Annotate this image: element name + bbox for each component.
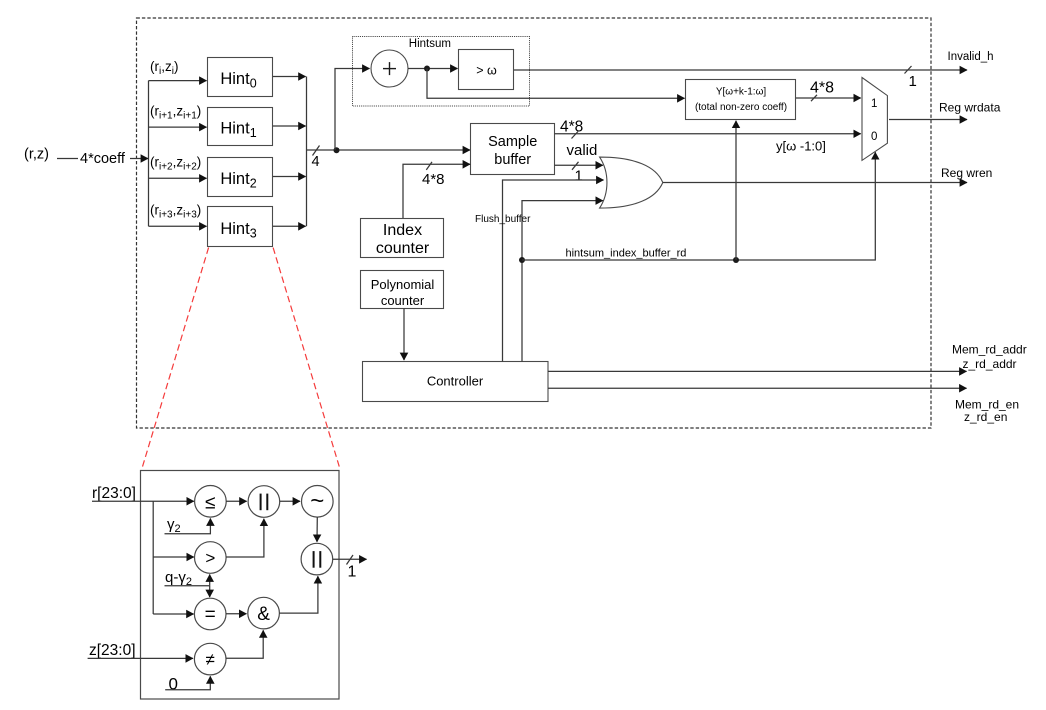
svg-text:Hintsum: Hintsum bbox=[409, 38, 451, 50]
wire branch to Hint3 bbox=[149, 225, 207, 227]
svg-text:(ri+1,zi+1): (ri+1,zi+1) bbox=[150, 104, 201, 122]
node width slash 4*8 index path bbox=[426, 162, 432, 170]
svg-text:Index: Index bbox=[383, 222, 422, 239]
wire NOT down to OR2 bbox=[316, 517, 318, 542]
wire branch to Hint1 bbox=[149, 126, 207, 128]
svg-text:≠: ≠ bbox=[206, 650, 215, 669]
block Hint2 bbox=[208, 158, 273, 197]
wire q-gamma2 horizontal bbox=[165, 585, 210, 587]
svg-text:buffer: buffer bbox=[494, 152, 531, 168]
block Polynomial counter bbox=[361, 271, 444, 309]
wire gamma2 into LE bottom bbox=[165, 519, 211, 534]
svg-text:y[ω -1:0]: y[ω -1:0] bbox=[776, 138, 826, 153]
gate GT circle bbox=[195, 542, 227, 574]
wire zero into NE bottom bbox=[165, 676, 210, 689]
svg-text:>: > bbox=[205, 549, 215, 568]
gate LE circle bbox=[195, 486, 227, 518]
wire q-gamma2 down into EQ bbox=[209, 586, 211, 597]
block Controller bbox=[363, 362, 549, 402]
node junction dot after adder bbox=[424, 66, 430, 72]
wire EQ to AND bbox=[226, 613, 246, 615]
svg-text:Y[ω+k-1:ω]: Y[ω+k-1:ω] bbox=[716, 87, 767, 98]
wire up into Y block bottom bbox=[735, 121, 737, 260]
wire hintsum_index_buffer_rd to mux select bbox=[522, 152, 875, 260]
block Hint3 bbox=[208, 207, 273, 247]
wire Hint2 output bbox=[273, 176, 306, 178]
svg-text:&: & bbox=[257, 604, 270, 625]
svg-text:(ri+2,zi+2): (ri+2,zi+2) bbox=[150, 155, 201, 173]
svg-text:r[23:0]: r[23:0] bbox=[92, 485, 136, 502]
svg-text:=: = bbox=[205, 604, 216, 625]
wire adder to comparator bbox=[408, 68, 458, 70]
node width slash 4*8 sample output bbox=[572, 132, 579, 139]
svg-text:1: 1 bbox=[909, 73, 917, 90]
wire r input to LE bbox=[92, 500, 194, 502]
svg-text:z_rd_en: z_rd_en bbox=[964, 410, 1007, 424]
wire right output bus vertical bbox=[306, 77, 308, 227]
wire polynomial counter to controller bbox=[403, 309, 405, 361]
wire OR2 output bbox=[333, 558, 367, 560]
node junction dot on bus bbox=[334, 147, 340, 153]
wire branch to Hint2 bbox=[149, 177, 207, 179]
svg-text:4*coeff: 4*coeff bbox=[80, 151, 126, 167]
wire AND to OR2 bottom bbox=[279, 576, 318, 613]
wire LE to OR1 bbox=[226, 500, 246, 502]
wire junction up to adder bbox=[335, 69, 370, 151]
svg-text:Controller: Controller bbox=[427, 374, 484, 389]
svg-text:(total non-zero coeff): (total non-zero coeff) bbox=[695, 102, 787, 113]
block Hint0 bbox=[208, 58, 273, 97]
mux 2to1 bbox=[862, 78, 887, 161]
wire input arrow into bus bbox=[130, 158, 148, 160]
wire z input to NE bbox=[88, 657, 193, 659]
node junction dot hintsum branch bbox=[519, 257, 525, 263]
svg-text:(r,z): (r,z) bbox=[24, 147, 49, 163]
wire sample buffer to mux input 0 bbox=[555, 133, 861, 135]
wire NE to AND bottom bbox=[226, 630, 263, 658]
wire branch to Hint0 bbox=[149, 80, 207, 82]
wire input segment bbox=[57, 158, 78, 160]
block Hint1 bbox=[208, 108, 273, 146]
wire controller up to OR gate input 3 bbox=[522, 201, 603, 362]
svg-text:counter: counter bbox=[381, 293, 425, 308]
wire q-gamma2 up into GT bbox=[209, 575, 211, 586]
svg-text:z[23:0]: z[23:0] bbox=[89, 642, 136, 659]
wire comparator to Invalid_h output bbox=[514, 69, 967, 71]
gate OR2 circle bbox=[301, 543, 333, 575]
wire controller output Mem_rd_addr bbox=[548, 370, 967, 372]
wire left input bus vertical bbox=[148, 81, 150, 227]
node width slash 1 valid bbox=[572, 162, 579, 170]
wire Hint1 output bbox=[273, 125, 306, 127]
svg-text:4*8: 4*8 bbox=[560, 119, 583, 136]
wire valid to OR gate bbox=[555, 164, 603, 166]
node width slash 4*8 at Y output bbox=[811, 95, 817, 101]
svg-text:~: ~ bbox=[310, 488, 324, 515]
gate EQ circle bbox=[194, 598, 226, 630]
svg-text:counter: counter bbox=[376, 240, 430, 257]
node width slash 4 bbox=[313, 146, 320, 156]
wire index counter to sample buffer bbox=[403, 164, 470, 218]
svg-text:Flush_buffer: Flush_buffer bbox=[475, 214, 531, 225]
wire bus to Sample buffer bbox=[307, 149, 471, 151]
zoom callout red dashed right bbox=[273, 248, 340, 468]
svg-text:Reg wrdata: Reg wrdata bbox=[939, 101, 1001, 115]
svg-text:1: 1 bbox=[575, 168, 583, 185]
wire r vertical tap bbox=[152, 501, 154, 614]
wire Hint0 output bbox=[273, 76, 306, 78]
wire mux output Reg wrdata bbox=[889, 119, 967, 121]
svg-text:Polynomial: Polynomial bbox=[371, 277, 435, 292]
svg-text:valid: valid bbox=[567, 142, 598, 159]
wire OR output Reg wren bbox=[663, 182, 967, 184]
gate NOT circle bbox=[302, 486, 334, 518]
wire controller output Mem_rd_en bbox=[548, 387, 967, 389]
svg-text:hintsum_index_buffer_rd: hintsum_index_buffer_rd bbox=[566, 248, 687, 260]
block Hintsum dotted group box bbox=[353, 37, 530, 107]
wire r tap to EQ bbox=[153, 613, 193, 615]
svg-text:z_rd_addr: z_rd_addr bbox=[963, 357, 1017, 371]
svg-text:4*8: 4*8 bbox=[422, 171, 445, 188]
svg-text:Mem_rd_addr: Mem_rd_addr bbox=[952, 343, 1027, 357]
wire Hint3 output bbox=[273, 225, 306, 227]
wire GT to OR1 bottom bbox=[226, 519, 264, 557]
zoom callout red dashed left bbox=[141, 248, 208, 471]
svg-text:> ω: > ω bbox=[476, 64, 497, 78]
block comparator gt-omega bbox=[459, 50, 514, 90]
gate AND circle bbox=[248, 597, 280, 629]
block Sample buffer bbox=[471, 124, 555, 175]
svg-text:1: 1 bbox=[871, 98, 877, 110]
node width slash 1 on Invalid_h bbox=[905, 66, 912, 74]
adder plus circle bbox=[371, 50, 408, 87]
svg-text:Invalid_h: Invalid_h bbox=[948, 51, 994, 63]
wire OR1 to NOT bbox=[280, 500, 300, 502]
node width slash 1 output bbox=[347, 555, 354, 565]
gate OR1 circle bbox=[248, 486, 280, 518]
wire r tap to GT bbox=[153, 556, 194, 558]
svg-text:≤: ≤ bbox=[205, 493, 215, 514]
node junction dot on hintsum line bbox=[733, 257, 739, 263]
svg-text:4*8: 4*8 bbox=[810, 80, 834, 97]
svg-text:(ri+3,zi+3): (ri+3,zi+3) bbox=[150, 203, 201, 221]
gate OR bbox=[600, 157, 663, 208]
wire adder tap down to Y block bbox=[427, 69, 685, 99]
block Index counter bbox=[361, 219, 444, 258]
svg-text:1: 1 bbox=[348, 564, 357, 581]
wire controller up to OR gate input 2 (Flush_buffer) bbox=[503, 180, 604, 362]
block Y total non-zero coeff bbox=[686, 80, 796, 120]
svg-text:Reg wren: Reg wren bbox=[941, 166, 992, 180]
svg-text:0: 0 bbox=[871, 131, 877, 143]
block detail zoom box bbox=[141, 471, 340, 700]
svg-text:Sample: Sample bbox=[488, 134, 537, 150]
gate NE circle bbox=[194, 643, 226, 675]
svg-text:0: 0 bbox=[169, 674, 178, 693]
main dashed boundary box bbox=[137, 18, 932, 428]
svg-text:4: 4 bbox=[312, 154, 320, 170]
wire Y block to mux input 1 bbox=[796, 97, 861, 99]
svg-text:(ri,zi): (ri,zi) bbox=[150, 59, 178, 77]
